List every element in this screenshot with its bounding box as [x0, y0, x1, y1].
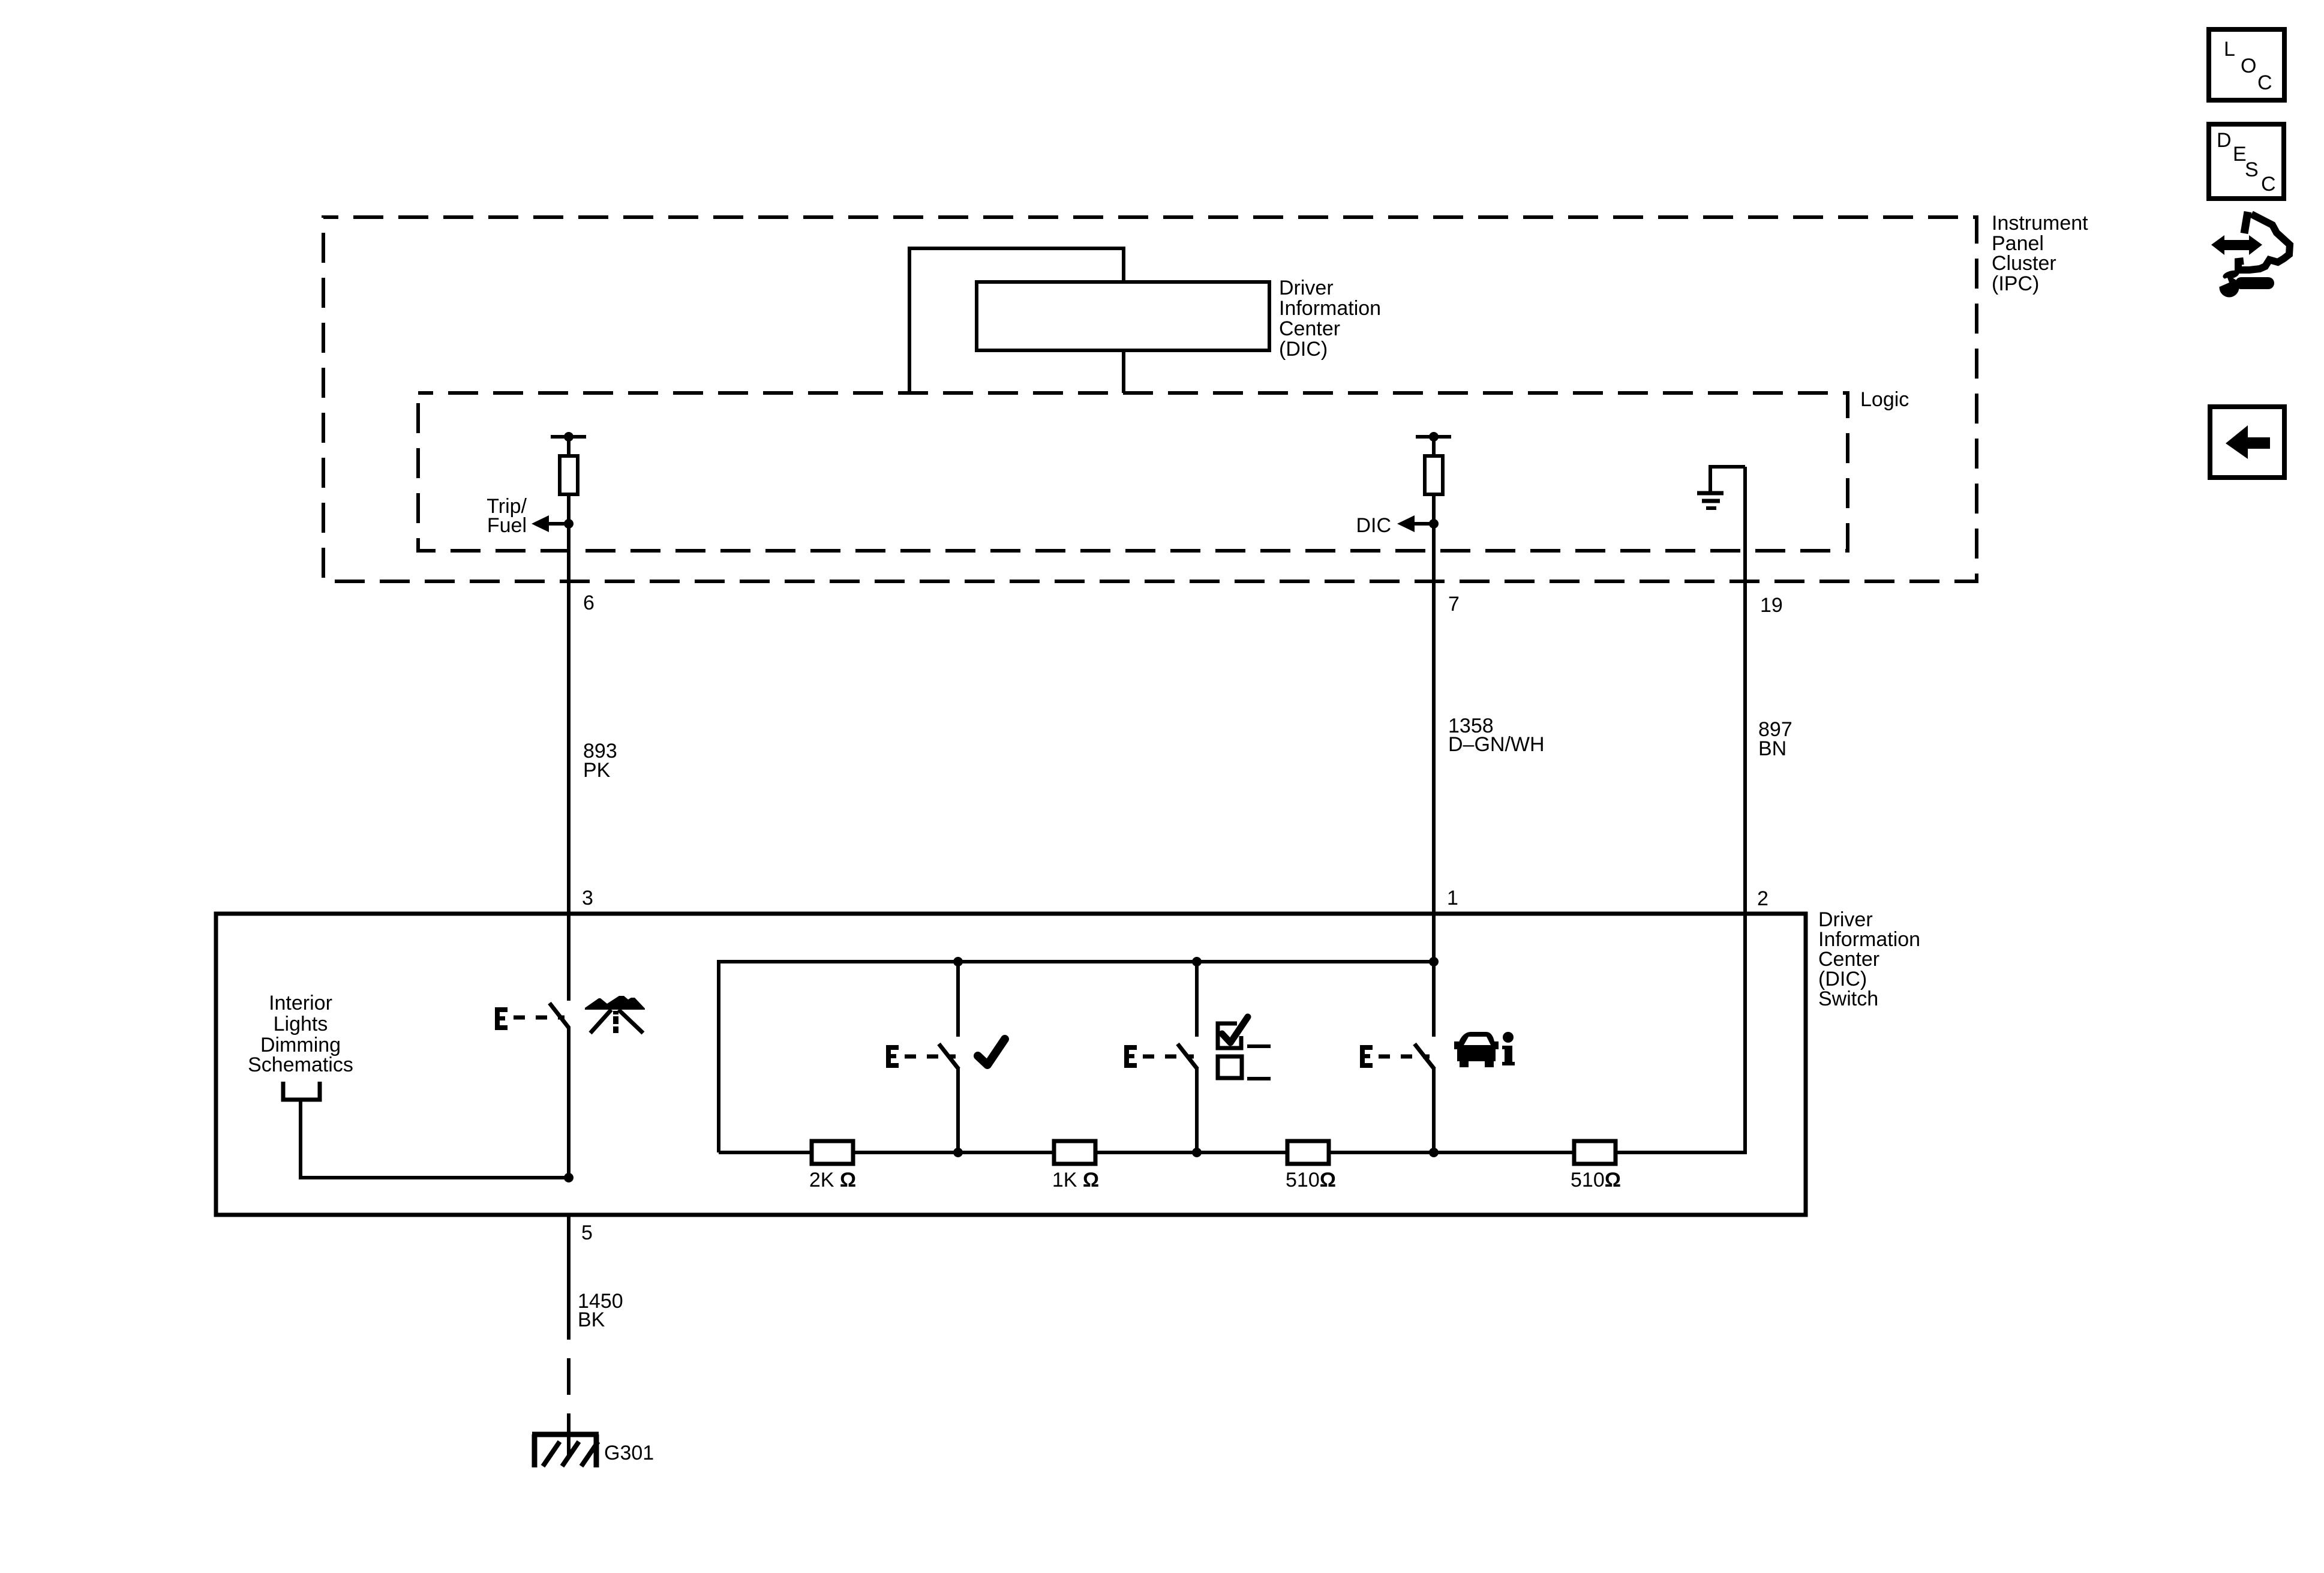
svg-text:2: 2: [1757, 887, 1768, 910]
svg-text:7: 7: [1448, 593, 1460, 616]
node dot on T-bar: [564, 432, 574, 442]
resistor 2K: [812, 1141, 853, 1164]
DIC switch label Driver Information Center (DIC) Switch: [1818, 908, 1920, 1010]
svg-text:O: O: [2241, 55, 2256, 77]
svg-text:D–GN/WH: D–GN/WH: [1448, 733, 1545, 756]
svg-text:Cluster: Cluster: [1992, 252, 2056, 275]
svg-text:(IPC): (IPC): [1992, 272, 2039, 295]
svg-text:BK: BK: [578, 1308, 605, 1331]
wire from bracket to switch A: [301, 1101, 569, 1178]
checklist icon: [1218, 1017, 1271, 1079]
IPC label Instrument Panel Cluster (IPC): [1992, 212, 2088, 295]
node dots bottom bus: [953, 1148, 963, 1157]
E dashed link S3: [1143, 1055, 1194, 1059]
svg-text:(DIC): (DIC): [1279, 338, 1328, 361]
svg-text:6: 6: [583, 592, 594, 614]
resistor 1K: [1054, 1141, 1095, 1164]
svg-text:Lights: Lights: [274, 1013, 328, 1035]
svg-text:BN: BN: [1758, 737, 1786, 760]
svg-text:Fuel: Fuel: [487, 514, 527, 537]
wire 1450 BK dashed: [567, 1358, 571, 1395]
DIC signal arrow: [1356, 514, 1434, 537]
wire 1450 BK solid: [567, 1215, 571, 1340]
wire DIC bracket: [909, 248, 1124, 393]
svg-text:D: D: [2217, 129, 2232, 152]
ground G301: [532, 1434, 599, 1467]
resistor R1 (Trip/Fuel pull-up): [551, 437, 586, 494]
back arrow icon box: [2210, 407, 2284, 478]
sub-circuit left edge: [717, 960, 720, 1152]
switch S4 (vehicle info): [1415, 962, 1434, 1152]
checkmark icon: [978, 1039, 1005, 1065]
switch S1 (Trip/Fuel): [550, 914, 569, 1178]
svg-text:2K Ω: 2K Ω: [809, 1169, 856, 1191]
DIC label Driver Information Center (DIC): [1279, 277, 1381, 361]
svg-text:510Ω: 510Ω: [1286, 1169, 1336, 1191]
svg-text:Interior: Interior: [269, 992, 332, 1014]
svg-text:C: C: [2257, 71, 2272, 94]
switch S3 (menu/select): [1178, 962, 1197, 1152]
svg-text:510Ω: 510Ω: [1571, 1169, 1621, 1191]
resistor 510 b: [1574, 1141, 1616, 1164]
resistor R2 (DIC pull-up): [1416, 437, 1451, 494]
node junction at switch A bottom: [564, 1173, 574, 1182]
wire 893 PK vertical: [567, 494, 571, 914]
E drive label S1: [495, 1007, 508, 1030]
switch S2 (enter/set): [939, 962, 959, 1152]
svg-text:Information: Information: [1279, 297, 1381, 320]
wire 1358 D-GN/WH vertical: [1432, 494, 1436, 962]
E dashed link S2: [905, 1055, 956, 1059]
LOC icon box: [2209, 29, 2284, 100]
sub-circuit bottom bus: [719, 1151, 1747, 1154]
svg-text:Instrument: Instrument: [1992, 212, 2088, 235]
wire 897 BN vertical: [1743, 467, 1747, 1152]
Trip/Fuel signal arrow: [487, 495, 569, 537]
E dashed link S4: [1379, 1055, 1430, 1059]
node dots top bus: [953, 957, 963, 966]
node junction DIC: [1429, 519, 1439, 529]
Interior Lights Dimming Schematics label: [248, 992, 353, 1076]
DESC icon box: [2209, 124, 2284, 199]
svg-text:19: 19: [1760, 594, 1783, 617]
svg-text:Logic: Logic: [1860, 388, 1909, 411]
svg-text:DIC: DIC: [1356, 514, 1391, 537]
DIC display box: [977, 282, 1269, 350]
trip odometer icon (mountains/road): [585, 996, 645, 1033]
svg-text:G301: G301: [604, 1442, 654, 1464]
E drive label S4: [1360, 1045, 1373, 1068]
svg-text:Switch: Switch: [1818, 987, 1878, 1010]
svg-text:5: 5: [581, 1221, 593, 1244]
svg-text:PK: PK: [583, 759, 611, 782]
E dashed link S1: [514, 1016, 565, 1020]
svg-text:L: L: [2224, 38, 2235, 61]
svg-text:3: 3: [582, 887, 593, 909]
svg-text:C: C: [2261, 173, 2276, 196]
svg-text:Driver: Driver: [1279, 277, 1334, 299]
IPC outer dashed box: [323, 217, 1977, 581]
svg-text:1K Ω: 1K Ω: [1052, 1169, 1099, 1191]
node junction Trip/Fuel: [564, 519, 574, 529]
resistor 510 a: [1287, 1141, 1329, 1164]
car info icon: [1454, 1032, 1499, 1067]
connector bracket (Interior Lights Dimming Schematics): [283, 1082, 320, 1100]
info i glyph: [1502, 1032, 1515, 1065]
svg-text:Center: Center: [1279, 317, 1340, 340]
DIC switch box: [216, 914, 1806, 1215]
harness continuation icon (housing outline): [2244, 212, 2248, 233]
wrench icon: [2217, 269, 2274, 297]
harness continuation icon (double arrow): [2211, 235, 2262, 255]
sub-circuit top bus: [719, 960, 1434, 963]
svg-text:S: S: [2245, 158, 2259, 181]
svg-text:1: 1: [1447, 887, 1458, 909]
E drive label S2: [886, 1045, 899, 1068]
ground symbol (IPC logic): [1697, 467, 1745, 508]
E drive label S3: [1124, 1045, 1137, 1068]
Logic inner dashed box: [418, 393, 1848, 551]
svg-text:Schematics: Schematics: [248, 1053, 353, 1076]
node dot on T-bar 2: [1429, 432, 1439, 442]
